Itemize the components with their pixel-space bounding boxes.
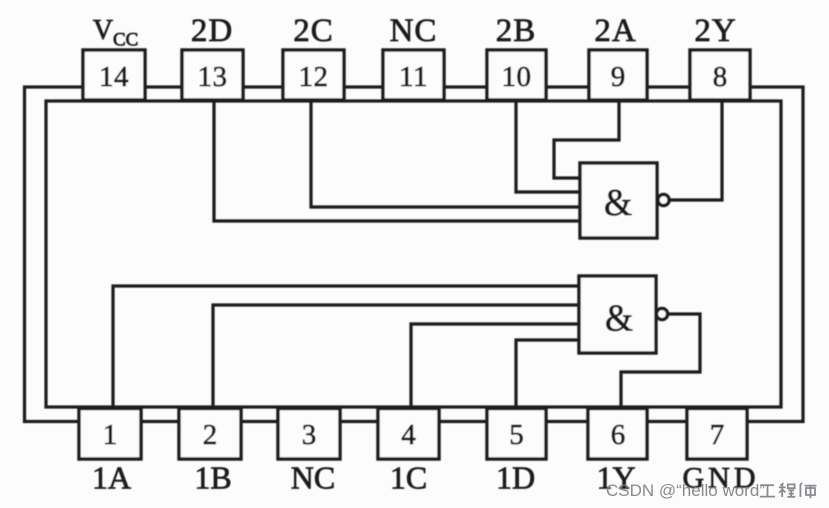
svg-text:2: 2: [203, 419, 218, 451]
pin 2 box: [179, 409, 241, 460]
NAND gate U1 body: [579, 276, 656, 353]
pin 3 box: [278, 409, 340, 460]
svg-text:1: 1: [103, 419, 118, 451]
svg-text:10: 10: [502, 61, 532, 93]
pin 14 box: [83, 50, 145, 100]
CSDN watermark: [606, 481, 829, 501]
svg-text:2C: 2C: [293, 13, 334, 49]
svg-text:12: 12: [299, 61, 329, 93]
NAND gate U2 body: [580, 163, 657, 238]
wire pin13 2D to gate U2 input D: [214, 101, 580, 221]
svg-text:13: 13: [198, 61, 228, 93]
pin 4 box: [378, 409, 439, 460]
svg-text:2Y: 2Y: [694, 13, 736, 49]
NAND gate U1 inversion bubble: [656, 308, 667, 319]
wire gate U2 output to pin8 2Y: [669, 101, 722, 200]
svg-text:7: 7: [710, 419, 725, 451]
svg-text:2A: 2A: [594, 13, 636, 49]
pin 5 box: [487, 409, 546, 460]
svg-text:1D: 1D: [496, 460, 535, 496]
pin 7 box: [687, 409, 747, 460]
wire pin12 2C to gate U2 input C: [311, 101, 580, 207]
svg-text:&: &: [605, 298, 633, 340]
svg-text:2B: 2B: [496, 13, 537, 49]
wire pin1 1A to gate U1 input A: [113, 286, 579, 407]
svg-text:NC: NC: [390, 13, 438, 49]
svg-text:5: 5: [509, 419, 524, 451]
pin 10 box: [487, 50, 546, 100]
svg-text:2D: 2D: [191, 13, 233, 49]
pin 11 box: [383, 50, 444, 100]
wire pin9 2A to gate U2 input A: [554, 101, 619, 178]
svg-text:4: 4: [401, 419, 416, 451]
svg-text:9: 9: [611, 61, 626, 93]
svg-text:1A: 1A: [92, 460, 131, 496]
svg-text:8: 8: [713, 61, 728, 93]
pin 9 box: [589, 50, 647, 100]
wire pin4 1C to gate U1 input C: [411, 324, 579, 407]
svg-text:NC: NC: [291, 460, 335, 496]
pin 6 box: [588, 409, 647, 460]
wire gate U1 output to pin6 1Y: [621, 314, 700, 408]
wire pin10 2B to gate U2 input B: [516, 101, 580, 192]
svg-text:6: 6: [611, 419, 626, 451]
svg-text:CC: CC: [113, 30, 138, 51]
IC package outer outline: [25, 87, 804, 422]
svg-text:1B: 1B: [194, 460, 231, 496]
watermark CJK glyphs (hand-drawn): [759, 482, 819, 502]
pin 13 box: [182, 50, 243, 100]
svg-text:1C: 1C: [390, 460, 427, 496]
svg-text:3: 3: [302, 419, 317, 451]
svg-text:11: 11: [399, 61, 428, 93]
wire pin2 1B to gate U1 input B: [213, 305, 579, 407]
NAND gate U2 inversion bubble: [658, 194, 669, 205]
pin 8 box: [690, 50, 750, 100]
svg-text:V: V: [93, 15, 113, 46]
svg-text:&: &: [604, 182, 632, 224]
pin 12 box: [283, 50, 344, 100]
wire pin5 1D to gate U1 input D: [516, 340, 579, 407]
pin 1 box: [79, 409, 141, 460]
svg-text:14: 14: [99, 61, 129, 93]
IC package inner outline: [46, 101, 781, 407]
